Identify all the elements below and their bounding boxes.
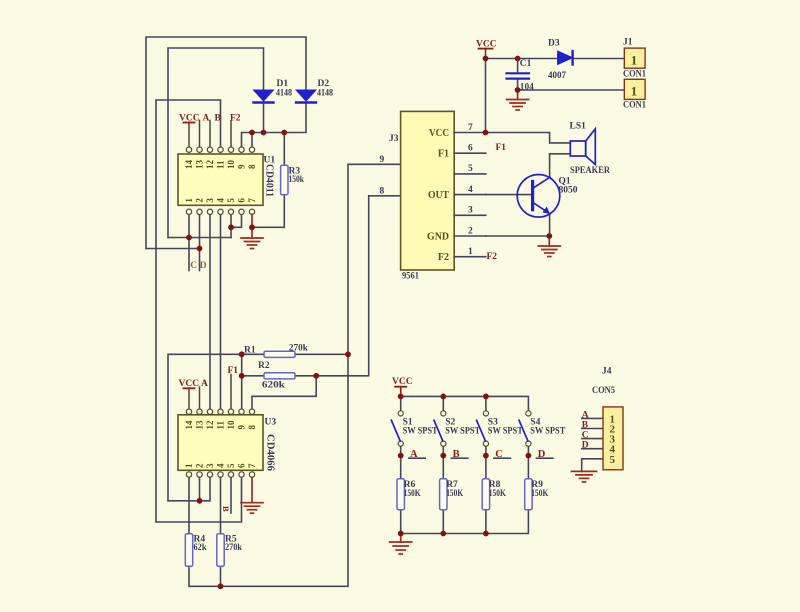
connector J4 CON5 body [592,366,623,470]
svg-text:U3: U3 [265,418,277,428]
connector J1 CON1 box 1 [623,38,646,80]
ground at J4 pin5 [572,471,597,482]
ground under C1 [507,90,529,110]
svg-text:5: 5 [468,164,473,174]
svg-text:270k: 270k [289,344,309,354]
wire switch VCC top rail [401,396,529,411]
wire U3 pin5 stub [230,477,232,513]
svg-text:VCC: VCC [476,39,497,49]
J3 right pin 7 [454,123,486,133]
svg-text:5: 5 [610,454,616,466]
svg-text:4148: 4148 [276,89,292,99]
transistor Q1 8050 [517,175,560,218]
J3 right pin 1 F2 [454,247,497,262]
svg-text:VCC: VCC [429,128,449,139]
resistor R5 270k [217,534,243,567]
svg-text:150K: 150K [489,489,506,499]
svg-text:104: 104 [520,83,534,93]
transistor labels [559,177,578,196]
wire net D (U1 pin2 to D2 anode loop) [146,37,306,271]
svg-text:4: 4 [216,463,226,468]
svg-text:7: 7 [247,198,257,203]
svg-text:9: 9 [380,155,385,165]
U1 pin circles bottom [186,209,254,214]
svg-text:1: 1 [468,247,473,257]
svg-text:150k: 150k [289,175,305,185]
svg-text:13: 13 [195,420,205,430]
wire switch bottom rail to ground [401,510,529,534]
svg-text:C: C [495,449,503,460]
svg-text:14: 14 [184,160,194,170]
VCC power symbol at U3 pin14 [179,379,200,389]
resistor R1 270k [244,344,309,358]
J3 right pin 4 OUT [454,185,486,195]
svg-text:C1: C1 [520,59,532,69]
wire C1 bottom to J1 CON1 no2 [518,80,625,90]
svg-text:D1: D1 [277,79,289,89]
svg-text:LS1: LS1 [570,122,587,132]
svg-text:F1: F1 [438,149,449,160]
svg-text:F2: F2 [487,252,498,262]
wire U3 VCC stub [188,388,190,409]
VCC power symbol top [476,39,497,49]
svg-text:CON5: CON5 [592,386,615,396]
wire U1 pin12 stub net B [209,121,211,147]
svg-text:4: 4 [216,198,226,203]
svg-text:620k: 620k [262,380,286,390]
wire net R2 right / J3 pin8 / U3 pin8 [252,196,401,409]
svg-text:R1: R1 [244,345,256,355]
svg-text:3: 3 [468,206,473,216]
resistor R7 150K [440,479,464,510]
wire switch S3 column [486,446,511,479]
svg-text:CD4066: CD4066 [265,434,276,471]
svg-text:SPEAKER: SPEAKER [570,166,610,176]
svg-text:150K: 150K [404,489,421,499]
svg-text:9561: 9561 [402,271,419,281]
svg-text:5: 5 [226,198,236,203]
svg-text:J1: J1 [623,38,633,48]
svg-text:D2: D2 [318,79,330,89]
op-amp U1 CD4011 body [178,154,275,205]
svg-text:8: 8 [247,425,257,430]
svg-text:A: A [410,449,418,460]
wire U3 pin10 stub net F1 [230,375,232,410]
op-amp U2/J3 9561 body [389,111,454,281]
svg-text:270k: 270k [225,543,243,553]
switch S2 SW SPST [434,411,481,446]
wire switch S1 column [401,446,426,479]
svg-text:14: 14 [184,420,194,430]
wire Q1 emitter down to GND net [549,214,551,236]
svg-text:J4: J4 [602,366,612,376]
U1 pin numbers top row 14..8 [184,160,257,170]
switch S1 SW SPST [391,411,438,446]
svg-text:150K: 150K [446,489,463,499]
svg-text:B: B [221,506,231,512]
switch S4 SW SPST [519,411,566,446]
svg-text:C: C [190,261,197,271]
svg-text:3: 3 [205,463,215,468]
svg-text:SW SPST: SW SPST [445,427,481,437]
svg-text:4148: 4148 [317,89,333,99]
wire R3 bottom to U1 pin7 [252,195,284,228]
wire J3 pin7 to speaker LS1 [486,133,571,143]
svg-text:C: C [582,431,589,441]
svg-text:SW SPST: SW SPST [488,427,524,437]
wire J3 GND pin2 to ground [486,235,550,237]
svg-text:3: 3 [205,198,215,203]
svg-text:F2: F2 [230,113,241,123]
J3 right pin 3 [454,206,486,216]
wire J4 pin lines nets A B C D and pin5 [582,418,603,471]
wire net C (U1 pin5/pin1 to D1 anode loop) [168,48,264,271]
svg-text:12: 12 [205,160,215,170]
switch S3 SW SPST [477,411,524,446]
svg-text:6: 6 [237,198,247,203]
wire net R2 left [242,375,264,377]
svg-text:A: A [203,113,210,123]
VCC power symbol at U1 pin14 [179,113,200,123]
svg-text:CON1: CON1 [623,101,646,111]
svg-text:CON1: CON1 [623,69,646,79]
svg-text:1: 1 [631,53,638,68]
U1 pin circles top [186,147,254,152]
svg-text:6: 6 [468,144,473,154]
wire net U1 pins3,4 to U3 pins12,11 [210,215,221,410]
resistor R8 150K [482,479,506,510]
wire U3 pin13 stub net A [199,387,201,409]
capacitor C1 104 [507,59,535,93]
VCC power symbol at switch rail [392,377,413,396]
J3 right pin 6 F1 [454,143,506,154]
svg-text:10: 10 [226,160,236,170]
wire switch S2 column [443,446,468,479]
svg-text:12: 12 [205,420,215,430]
svg-text:B: B [582,421,589,431]
svg-text:4007: 4007 [548,71,566,81]
J4 pin numbers 1-5 [610,413,616,465]
svg-text:A: A [582,410,589,420]
ground at Q1 emitter / J3 GND [538,236,560,257]
svg-text:8: 8 [380,186,385,196]
svg-text:SW SPST: SW SPST [530,427,566,437]
svg-text:D: D [582,441,589,451]
svg-text:1: 1 [184,463,194,468]
svg-text:10: 10 [226,420,236,430]
svg-text:F2: F2 [438,252,449,263]
wire bus y=132.5 (U1 pins 8,9 - D1 - R3 - D2) [242,103,307,165]
wire U3 pin1 to R4 [188,477,190,534]
svg-text:2: 2 [195,463,205,468]
U1 pin numbers bottom row 1..7 [184,198,257,203]
svg-text:CD4011: CD4011 [264,164,275,197]
svg-text:B: B [453,449,460,460]
wire U1 pin10 stub net F2 [230,121,232,147]
svg-text:9: 9 [237,164,247,169]
wire net R1 right / J3 pin9 / R4 R5 bottoms [189,164,401,586]
J3 right pin 2 GND [454,226,486,236]
diode D1 4148 [254,79,293,103]
svg-text:B: B [215,113,222,123]
svg-text:11: 11 [216,160,226,169]
svg-text:VCC: VCC [179,113,200,123]
svg-text:D: D [200,261,207,271]
wire U1 pin13 stub net A [199,121,201,147]
svg-text:D3: D3 [548,39,560,49]
resistor R3 150k [281,165,305,194]
svg-text:GND: GND [427,231,449,242]
svg-text:F1: F1 [496,143,507,153]
wire net U1 pin11 to U3 pin6 [156,100,242,522]
connector J1 CON1 box 2 [623,79,646,110]
svg-text:150K: 150K [531,489,548,499]
wire net R1 left to U3 pins 2,3 [168,354,264,501]
svg-text:8: 8 [247,164,257,169]
resistor R4 62k [185,534,207,567]
U3 pin numbers top row 14..8 [184,420,257,430]
J3 right pin 5 [454,164,486,174]
svg-text:9: 9 [237,425,247,430]
svg-text:VCC: VCC [179,379,200,389]
svg-text:F1: F1 [228,366,239,376]
svg-text:11: 11 [216,420,226,429]
svg-text:8050: 8050 [559,186,578,196]
svg-text:13: 13 [195,160,205,170]
svg-text:7: 7 [247,463,257,468]
ground at U1 pin7 [241,215,263,249]
resistor R9 150K [525,479,549,510]
svg-text:1: 1 [184,198,194,203]
wire speaker LS1 pin2 to Q1 collector [550,154,571,176]
svg-text:1: 1 [631,84,638,99]
ground at switch bottom rail [390,534,412,555]
diode D2 4148 [296,79,333,103]
speaker labels [570,122,611,176]
svg-text:4: 4 [468,185,473,195]
U3 pin circles top [186,409,254,414]
wire Q1 base from J3 OUT [486,194,531,196]
svg-text:7: 7 [468,123,473,133]
ground at U3 pin7 [241,477,263,513]
diode D3 4007 [548,39,573,81]
resistor R2 620k [258,361,295,390]
svg-text:R2: R2 [258,361,270,371]
J3 pin names [427,128,449,263]
svg-text:2: 2 [468,226,473,236]
svg-text:D: D [538,449,546,460]
svg-text:OUT: OUT [428,190,449,201]
wire net VCC top rail (C1, D3, J1) [486,49,625,133]
svg-text:A: A [201,379,208,389]
svg-text:62k: 62k [194,543,208,553]
resistor R6 150K [397,479,421,510]
svg-text:SW SPST: SW SPST [403,427,439,437]
svg-text:VCC: VCC [392,377,413,387]
speaker LS1 [570,129,595,165]
op-amp U3 CD4066 body [178,415,276,471]
wire U1 pin VCC stub [188,123,190,147]
wire switch S4 column [528,446,553,479]
svg-text:2: 2 [195,198,205,203]
svg-text:J3: J3 [389,134,399,144]
wire U3 pin4 to R5 (net B) [220,477,222,534]
U3 pin numbers bottom row 1..7 [184,463,257,468]
svg-text:5: 5 [226,463,236,468]
U3 pin circles bottom [186,472,254,477]
svg-text:6: 6 [237,463,247,468]
